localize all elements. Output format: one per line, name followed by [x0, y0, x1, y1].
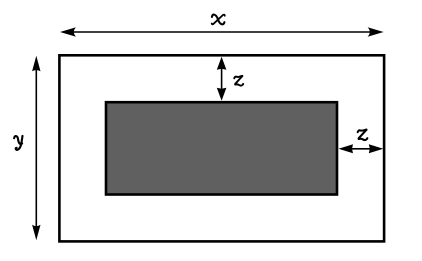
- label y: [14, 136, 22, 150]
- dimension arrow y (left, vertical double-headed): [32, 56, 40, 240]
- label z (right gap): [358, 130, 368, 141]
- inner filled rectangle (core): [106, 102, 337, 194]
- dimension arrow z (top gap, vertical double-headed): [217, 57, 227, 101]
- label x: [212, 15, 225, 25]
- dimension arrow x (top, horizontal double-headed): [60, 27, 384, 36]
- label z (top gap): [234, 76, 243, 86]
- outer rectangle (wall): [59, 55, 384, 241]
- dimension arrow z (right gap, horizontal double-headed): [339, 144, 384, 153]
